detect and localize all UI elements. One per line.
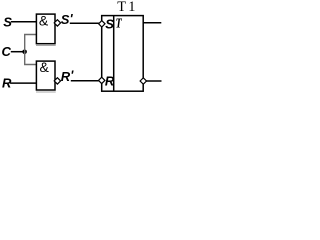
output polarity diamond bottom xyxy=(140,78,146,84)
wire R input xyxy=(10,82,36,84)
junction dot xyxy=(22,50,27,55)
svg-text:S': S' xyxy=(61,11,74,27)
AND gate 2 bottom shadow xyxy=(36,91,56,93)
wire S input xyxy=(11,21,37,23)
AND gate 2 body xyxy=(36,61,55,90)
T1 internal divider xyxy=(113,16,115,92)
svg-text:R: R xyxy=(105,74,115,89)
svg-text:T1: T1 xyxy=(117,0,137,15)
wire C input xyxy=(11,51,25,53)
flip-flop T1 box xyxy=(102,16,144,92)
AND gate 1 bottom shadow xyxy=(36,45,56,47)
wire R' to T1 xyxy=(71,80,100,82)
wire output top xyxy=(143,22,161,24)
wire C branch down to gate2 xyxy=(25,52,37,65)
svg-text:&: & xyxy=(40,59,50,75)
input polarity diamond R xyxy=(99,77,105,83)
svg-text:&: & xyxy=(39,12,49,28)
wire output bottom xyxy=(146,80,161,82)
svg-text:S: S xyxy=(105,16,114,31)
wire S' to T1 xyxy=(70,22,100,24)
polarity diamond gate1 output xyxy=(54,20,60,26)
input polarity diamond S xyxy=(99,21,105,27)
svg-text:T: T xyxy=(116,15,123,31)
polarity diamond gate2 output xyxy=(54,78,60,84)
AND gate 1 body xyxy=(36,14,55,44)
svg-text:C: C xyxy=(2,44,12,59)
wire C branch up to gate1 xyxy=(25,35,37,52)
